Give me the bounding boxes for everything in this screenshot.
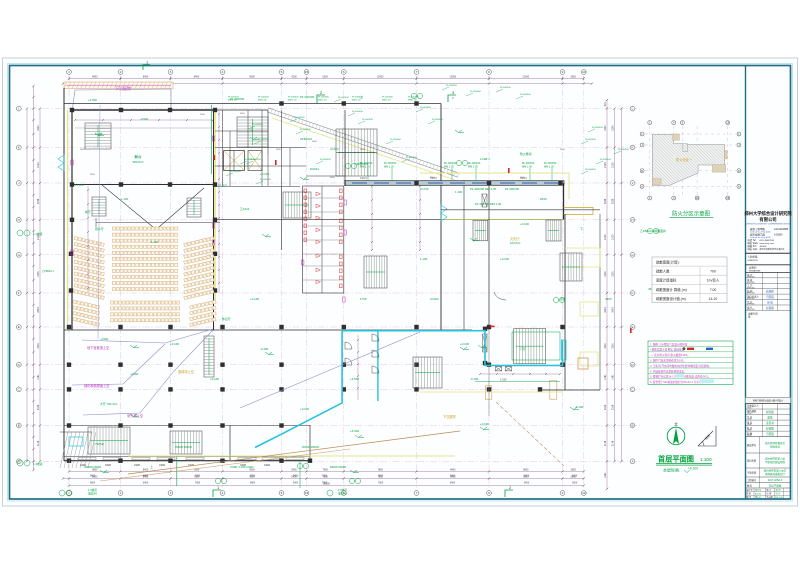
svg-text:7800: 7800 — [322, 483, 328, 485]
right grid bubble K — [630, 145, 635, 150]
svg-text:A-1/32: A-1/32 — [755, 493, 762, 496]
svg-text:防火分区一: 防火分区一 — [676, 157, 693, 162]
svg-text:Pk 400X00: Pk 400X00 — [258, 97, 269, 99]
svg-text:MM 1.30: MM 1.30 — [288, 99, 297, 101]
svg-text:C1C3: C1C3 — [360, 176, 367, 180]
right wing east wall — [599, 214, 601, 390]
top ramp treads — [268, 108, 458, 173]
svg-text:8400: 8400 — [143, 75, 149, 78]
side stage step right — [187, 198, 201, 217]
svg-text:绿色建: 绿色建 — [766, 410, 774, 414]
svg-text:8400: 8400 — [143, 476, 149, 478]
svg-text:意见书: 意见书 — [766, 421, 774, 425]
svg-text:Pk 400X00: Pk 400X00 — [260, 179, 271, 181]
main teal border frame — [10, 66, 791, 500]
right wing bay 3 — [580, 302, 598, 316]
svg-text:人防审批: 人防审批 — [748, 255, 759, 259]
svg-text:+0.100: +0.100 — [300, 407, 309, 411]
bottom grid bubble 1 — [67, 491, 72, 496]
horizontal grid line D — [30, 364, 640, 366]
svg-text:Pk 400X00: Pk 400X00 — [500, 87, 511, 89]
bottom grid bubble 15 — [304, 491, 309, 496]
svg-text:4: 4 — [222, 491, 224, 495]
bottom grid bubble 4 — [220, 491, 225, 496]
svg-text:E: E — [18, 325, 20, 329]
svg-text:6. 窗台低于900者加护窗栏杆2FL&7-1 ⓪⓪⓪。: 6. 窗台低于900者加护窗栏杆2FL&7-1 ⓪⓪⓪。 — [650, 380, 704, 384]
stair right wing — [560, 253, 582, 281]
svg-text:2334: 2334 — [612, 125, 615, 131]
svg-text:MM 1.30: MM 1.30 — [384, 165, 394, 168]
column 44 — [168, 423, 172, 427]
horizontal grid line B — [30, 425, 640, 427]
left dimension chain — [33, 86, 35, 470]
title block project rows — [746, 436, 791, 438]
column 45 — [220, 423, 224, 427]
svg-text:坡度8%: 坡度8% — [88, 492, 98, 496]
svg-text:3600: 3600 — [572, 483, 578, 485]
svg-text:700: 700 — [710, 270, 716, 274]
column 7 — [168, 182, 172, 186]
column 17 — [168, 325, 172, 329]
column 1 — [70, 108, 74, 112]
svg-text:5400: 5400 — [293, 483, 299, 485]
svg-text:Pk 400X00: Pk 400X00 — [338, 97, 349, 99]
svg-text:M02D M02D: M02D M02D — [330, 465, 346, 469]
svg-text:下沉庭院: 下沉庭院 — [115, 85, 131, 91]
svg-text:2166: 2166 — [604, 404, 607, 410]
right wing cyan fixture — [562, 340, 567, 360]
svg-text:MM 1.30: MM 1.30 — [258, 99, 267, 101]
svg-text:10: 10 — [582, 491, 586, 495]
vertical grid line 7 — [416, 77, 418, 489]
right grid bubble J — [630, 181, 635, 186]
sheet outer edge — [3, 58, 798, 506]
svg-text:7: 7 — [416, 70, 418, 74]
svg-text:F: F — [632, 291, 634, 295]
svg-text:下: 下 — [580, 227, 583, 231]
svg-text:7800: 7800 — [378, 483, 384, 485]
svg-text:Pk 400X00: Pk 400X00 — [362, 119, 373, 121]
svg-text:有限公司: 有限公司 — [759, 216, 776, 223]
svg-text:MM 1.30: MM 1.30 — [352, 99, 361, 101]
title block info rows — [746, 408, 791, 410]
top grid bubble 8 — [487, 70, 492, 75]
column 54 — [487, 181, 491, 185]
column 18 — [220, 325, 224, 329]
vertical grid line 1 — [68, 77, 70, 489]
bottom dimension chain — [69, 471, 584, 473]
hall left wall inner — [71, 110, 73, 330]
svg-text:Pk 400X00: Pk 400X00 — [432, 119, 443, 121]
svg-text:2334: 2334 — [604, 125, 607, 131]
horizontal grid line F — [30, 292, 640, 294]
right wing bay 4 — [580, 352, 598, 366]
tan box a — [485, 386, 491, 399]
section mark 4 — [213, 490, 221, 497]
corridor wall F — [281, 186, 283, 250]
svg-text:-4.500: -4.500 — [130, 372, 139, 376]
svg-text:+0.100: +0.100 — [210, 377, 219, 381]
elevator shaft — [224, 151, 245, 171]
svg-text:赵丽娟: 赵丽娟 — [766, 306, 774, 310]
svg-text:MM 1.30: MM 1.30 — [228, 99, 237, 101]
vertical grid line 2 — [120, 77, 122, 489]
svg-text:163.6m²: 163.6m² — [510, 241, 520, 245]
svg-text:9600: 9600 — [523, 468, 529, 471]
svg-text:H: H — [18, 218, 20, 222]
column 41 — [538, 387, 542, 391]
svg-text:2166: 2166 — [37, 404, 40, 410]
svg-text:审 核: 审 核 — [747, 278, 753, 282]
stair mid-right B — [546, 220, 561, 241]
svg-text:1.025: 1.025 — [500, 378, 507, 382]
svg-text:2040: 2040 — [612, 307, 615, 313]
column 34 — [118, 387, 122, 391]
canopy hatched band — [64, 82, 173, 89]
svg-text:MM 1.30: MM 1.30 — [544, 165, 554, 168]
column 27 — [220, 363, 224, 367]
left grid bubble G — [16, 252, 21, 257]
lower inner wall A — [229, 425, 231, 461]
top grid bubble 10 — [581, 70, 586, 75]
svg-text:7800: 7800 — [377, 468, 383, 471]
corridor wall G — [214, 186, 301, 188]
corridor wall H2 — [267, 110, 269, 155]
svg-text:2208: 2208 — [604, 198, 607, 204]
inner dim chain courtyard — [357, 335, 359, 400]
svg-text:Pk 400X00: Pk 400X00 — [244, 159, 255, 161]
key plan tan patch top — [673, 134, 680, 140]
svg-text:宽度计算指标: 宽度计算指标 — [656, 278, 677, 283]
bottom grid bubble 7 — [414, 491, 419, 496]
section mark 2 — [317, 95, 325, 103]
svg-text:专 业: 专 业 — [747, 300, 753, 304]
svg-text:2261: 2261 — [612, 343, 615, 349]
column 9 — [70, 218, 74, 222]
stair central B — [364, 256, 387, 288]
svg-text:1:4坡道: 1:4坡道 — [33, 462, 43, 466]
tan ramp diagonal 2 — [100, 449, 350, 481]
svg-text:1:100: 1:100 — [700, 457, 712, 462]
svg-text:7800: 7800 — [322, 468, 328, 471]
left grid bubble E — [16, 325, 21, 330]
left grid bubble C — [16, 387, 21, 392]
svg-text:2040: 2040 — [37, 307, 40, 313]
column 24 — [67, 363, 71, 367]
auditorium rear seating center — [110, 301, 179, 304]
column 31 — [487, 363, 491, 367]
left grid bubble L — [16, 106, 21, 111]
key plan tan patch edge — [725, 151, 728, 159]
hall left wall yellow liner — [67, 110, 69, 330]
svg-text:乙FB02A-1排烟竖井: 乙FB02A-1排烟竖井 — [640, 228, 666, 233]
svg-text:会签栏:: 会签栏: — [749, 266, 758, 270]
cyan door right mid — [441, 205, 447, 221]
svg-text:8400: 8400 — [450, 476, 456, 478]
green vertical bottom b — [299, 461, 301, 488]
svg-text:弓晓丽: 弓晓丽 — [766, 432, 774, 436]
top grid bubble 7 — [414, 70, 419, 75]
column 16 — [118, 325, 122, 329]
svg-text:1661: 1661 — [604, 472, 607, 478]
overhead line 1 — [82, 329, 213, 343]
svg-text:+0.100: +0.100 — [500, 257, 509, 261]
svg-text:H: H — [631, 218, 633, 222]
svg-text:L: L — [18, 107, 20, 111]
svg-text:ZHENGZHOU UNIVERSITY COMPREHEN: ZHENGZHOU UNIVERSITY COMPREHENSIVE DESIG… — [746, 224, 790, 226]
window band glazing — [352, 182, 367, 183]
svg-text:Pk 400X00: Pk 400X00 — [318, 97, 329, 99]
svg-text:审 核: 审 核 — [767, 300, 773, 304]
column 48 — [118, 459, 122, 463]
lower bottom windows — [78, 458, 96, 460]
yellow line top right — [420, 173, 569, 199]
olive wall row H — [441, 219, 563, 221]
svg-text:疏散人数: 疏散人数 — [656, 269, 670, 274]
svg-text:7: 7 — [416, 491, 418, 495]
horizontal grid line G — [30, 254, 640, 256]
red dash cyan corner — [490, 326, 495, 328]
svg-text:Pk 400X00: Pk 400X00 — [258, 139, 269, 141]
lower block left wall — [63, 330, 65, 461]
svg-text:M02D M02D: M02D M02D — [85, 465, 101, 469]
column 5 — [70, 182, 74, 186]
green level markers — [95, 133, 102, 136]
svg-text:Pk 400X00: Pk 400X00 — [300, 129, 311, 131]
hall right wall yellow liner — [214, 110, 216, 302]
top grid bubble 2 — [118, 70, 123, 75]
svg-text:Pk 400X00: Pk 400X00 — [470, 91, 481, 93]
column 36 — [220, 387, 224, 391]
svg-text:+4.500: +4.500 — [350, 429, 359, 433]
toilet core walls — [303, 186, 344, 293]
svg-text:www.zzuip.com: www.zzuip.com — [760, 243, 775, 245]
svg-text:E: E — [631, 325, 633, 329]
svg-text:1750: 1750 — [360, 297, 367, 301]
svg-text:2166: 2166 — [612, 404, 615, 410]
svg-text:B: B — [631, 424, 633, 428]
left grid bubble A — [16, 459, 21, 464]
stair service core big — [336, 129, 377, 176]
svg-text:2334: 2334 — [37, 125, 40, 131]
bowtie window c — [495, 367, 501, 371]
svg-text:1481: 1481 — [612, 374, 615, 380]
key plan bubbles — [648, 121, 652, 125]
bowtie window d — [505, 367, 511, 371]
top grid bubble 1 — [67, 70, 72, 75]
column 55 — [558, 181, 562, 185]
horizontal grid line C — [30, 388, 640, 390]
svg-text:383.9m²: 383.9m² — [132, 160, 143, 164]
svg-text:2:4坡道: 2:4坡道 — [338, 488, 347, 492]
overhead line 3 — [83, 330, 213, 415]
toilet fixtures — [340, 189, 343, 193]
section mark 1 — [143, 65, 150, 71]
svg-text:515: 515 — [604, 102, 607, 107]
svg-text:9900: 9900 — [249, 75, 255, 78]
svg-text:12000: 12000 — [377, 75, 384, 78]
svg-text:风雨操场兼报告厅: 风雨操场兼报告厅 — [765, 472, 786, 476]
cyan vertical B — [377, 331, 379, 401]
svg-text:12000: 12000 — [449, 75, 456, 78]
vertical grid line 4 — [222, 77, 224, 489]
right dimension chain — [606, 100, 608, 489]
svg-text:Pk 400X00 MM 1.30: Pk 400X00 MM 1.30 — [475, 202, 502, 206]
svg-text:C1749: C1749 — [420, 187, 429, 191]
left grid bubble B — [16, 423, 21, 428]
top grid bubble 15 — [304, 70, 309, 75]
column 42 — [67, 423, 71, 427]
right dimension chain 3 — [621, 109, 623, 462]
svg-text:FM甲1021: FM甲1021 — [355, 162, 369, 166]
overhead line 2 — [72, 344, 165, 385]
svg-text:1.100: 1.100 — [455, 190, 463, 194]
svg-text:3: 3 — [170, 491, 172, 495]
column 8 — [213, 182, 217, 186]
svg-text:赵丽娟: 赵丽娟 — [766, 426, 774, 430]
vertical grid line 8 — [488, 77, 490, 489]
column 15 — [67, 325, 71, 329]
svg-text:舞台: 舞台 — [134, 154, 142, 159]
svg-text:1: 1 — [68, 491, 70, 495]
svg-text:3600: 3600 — [572, 476, 578, 478]
svg-text:MM 1.30: MM 1.30 — [522, 165, 532, 168]
svg-text:-0.100: -0.100 — [575, 405, 584, 409]
right grid bubble G — [630, 252, 635, 257]
top dimension chain — [69, 78, 584, 80]
svg-text:MM 1.30: MM 1.30 — [408, 99, 417, 101]
svg-text:+0.100: +0.100 — [520, 222, 529, 226]
lower block bottom wall — [64, 460, 310, 462]
column 11 — [69, 252, 73, 256]
svg-text:6300: 6300 — [322, 75, 328, 78]
red accent 3 — [214, 155, 216, 160]
svg-text:7.00: 7.00 — [710, 288, 717, 292]
column 35 — [168, 387, 172, 391]
svg-text:Pk 400X00: Pk 400X00 — [300, 95, 315, 99]
yellow line mid — [420, 391, 563, 393]
svg-text:MM 1.30: MM 1.30 — [444, 165, 454, 168]
svg-text:3: 3 — [170, 70, 172, 74]
lower block bottom wall 2 — [64, 456, 310, 458]
svg-text:本层标高:: 本层标高: — [663, 467, 680, 473]
svg-text:C1023: C1023 — [330, 147, 339, 151]
svg-text:电 气: 电 气 — [747, 305, 753, 309]
right grid bubble F — [630, 291, 635, 296]
svg-text:郑州大学综合设计研究院: 郑州大学综合设计研究院 — [744, 210, 792, 217]
svg-text:SIGNATURE: SIGNATURE — [749, 269, 761, 272]
svg-text:下沉庭院: 下沉庭院 — [443, 414, 457, 419]
svg-text:7W/1D: 7W/1D — [95, 442, 104, 446]
right dimension chain 2 — [614, 109, 616, 462]
column 6 — [119, 182, 123, 186]
svg-text:结构师: 结构师 — [766, 289, 774, 293]
column 43 — [118, 423, 122, 427]
wall row 209 — [441, 209, 600, 211]
svg-text:Pk 400X00: Pk 400X00 — [294, 117, 305, 119]
svg-text:2040: 2040 — [604, 307, 607, 313]
column 52 — [308, 459, 312, 463]
svg-text:MM 1.30: MM 1.30 — [318, 99, 327, 101]
column 12 — [213, 252, 217, 256]
svg-text:5400: 5400 — [293, 476, 299, 478]
svg-text:8400: 8400 — [450, 468, 456, 471]
svg-text:8400: 8400 — [143, 483, 149, 485]
ramp bottom-left — [60, 432, 68, 468]
svg-text:2148: 2148 — [37, 440, 40, 446]
column 32 — [560, 363, 564, 367]
bottom grid bubble 6 — [341, 491, 346, 496]
dashed tan diagonal courtyard — [496, 402, 564, 466]
overhead line 4 — [240, 332, 420, 408]
svg-text:2017.06: 2017.06 — [775, 497, 783, 499]
right wing west wall — [564, 214, 566, 390]
svg-text:8: 8 — [488, 70, 490, 74]
dims below cyan corner — [480, 373, 560, 375]
svg-text:8400: 8400 — [92, 75, 98, 78]
svg-text:2100: 2100 — [612, 234, 615, 240]
svg-text:章:: 章: — [748, 315, 751, 319]
door arc mid-right — [494, 292, 506, 300]
svg-text:上: 上 — [250, 126, 253, 131]
vertical grid line 3 — [170, 77, 172, 489]
green rail hall right — [211, 105, 213, 174]
svg-text:B: B — [18, 424, 20, 428]
svg-text:Pk 400X00: Pk 400X00 — [446, 85, 457, 87]
bottom grid bubble 5 — [279, 491, 284, 496]
column 47 — [67, 459, 71, 463]
svg-text:5: 5 — [281, 491, 283, 495]
svg-text:9600: 9600 — [524, 483, 530, 485]
column 25 — [118, 363, 122, 367]
svg-text:15: 15 — [305, 491, 309, 495]
svg-text:弓晓丽: 弓晓丽 — [766, 295, 774, 299]
svg-text:前厅: 前厅 — [85, 209, 91, 214]
svg-text:C02D 1.100 C02D: C02D 1.100 C02D — [230, 465, 254, 469]
column 46 — [279, 423, 283, 427]
svg-text:Pk 400X00: Pk 400X00 — [592, 127, 603, 129]
svg-text:2291: 2291 — [37, 271, 40, 277]
svg-text:9600: 9600 — [524, 476, 530, 478]
stair hall NE — [237, 117, 268, 147]
bottom grid bubble 9 — [560, 491, 565, 496]
title block signature table — [746, 271, 791, 273]
svg-text:建筑: 建筑 — [767, 415, 773, 419]
svg-text:C02D: C02D — [264, 464, 270, 467]
left grid bubble H — [16, 217, 21, 222]
ladder stair mid-left — [204, 336, 214, 377]
bottom grid bubble 10 — [581, 491, 586, 496]
svg-text:A: A — [738, 185, 740, 189]
stair top-left — [85, 123, 111, 149]
hall right wall — [213, 110, 215, 330]
svg-text:MM 1.30: MM 1.30 — [468, 165, 478, 168]
vertical grid line 9 — [562, 77, 564, 489]
svg-text:9900: 9900 — [250, 476, 256, 478]
column 38 — [342, 387, 346, 391]
svg-text:W02D W02D: W02D W02D — [302, 445, 319, 449]
overhead line 5 — [98, 105, 100, 339]
svg-text:Pk 400X00: Pk 400X00 — [252, 124, 263, 126]
svg-text:大厅 763.4m²: 大厅 763.4m² — [100, 401, 117, 406]
right grid bubble C — [630, 387, 635, 392]
svg-text:3600: 3600 — [570, 468, 576, 471]
svg-text:8400: 8400 — [143, 468, 149, 471]
horizontal grid line H — [30, 219, 640, 221]
vertical grid line 15 — [306, 77, 308, 489]
svg-text:4. 内墙装修均详见装修做法表。: 4. 内墙装修均详见装修做法表。 — [650, 369, 687, 373]
svg-text:Pk 400X00: Pk 400X00 — [382, 97, 393, 99]
